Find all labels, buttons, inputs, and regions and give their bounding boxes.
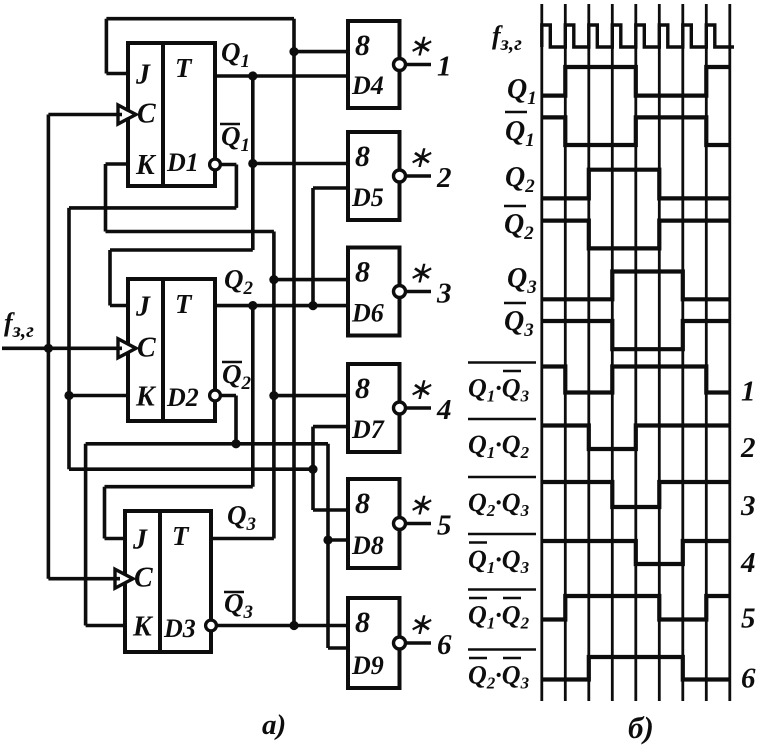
svg-text:D5: D5	[351, 183, 384, 212]
wire net Q-bar-3 long vertical	[292, 19, 296, 626]
wire net Q-bar-1 right vertical	[311, 427, 315, 510]
inverter circle on D7 output	[394, 402, 406, 414]
svg-text:T: T	[175, 53, 193, 83]
inverter circle Q-bar-2 output of D2	[210, 390, 221, 401]
junction Q1 / D5 branch	[248, 159, 257, 168]
clock input triangle D2 pin C	[118, 339, 136, 358]
wire net Q-bar-3 top feedback to J of D1	[106, 17, 294, 21]
svg-text:∗: ∗	[407, 257, 432, 290]
wire net Q3 branch to D6 input 1	[274, 278, 348, 282]
svg-text:1: 1	[741, 376, 756, 408]
svg-text:∗: ∗	[407, 141, 432, 174]
wire D9 output stub	[406, 641, 432, 645]
svg-text:D4: D4	[351, 71, 384, 100]
svg-text:T: T	[172, 521, 190, 551]
JK flip-flop D1 (T-type box)	[128, 43, 215, 186]
svg-text:5: 5	[437, 510, 452, 542]
wire clock bus vertical	[47, 115, 51, 579]
svg-text:4: 4	[740, 547, 756, 579]
label waveform Q-bar-3	[504, 303, 534, 341]
wire net Q3 vertical	[272, 232, 276, 539]
waveform Q2	[542, 170, 730, 199]
svg-text:Q2: Q2	[504, 209, 534, 244]
svg-text:Q1: Q1	[507, 74, 537, 109]
svg-text:K: K	[132, 612, 154, 643]
waveform Q-bar-3	[542, 321, 730, 349]
svg-text:Q2: Q2	[505, 162, 535, 197]
inverter circle on D8 output	[394, 518, 406, 530]
inverter circle on D9 output	[394, 637, 406, 649]
wire net Q2 J3 routing	[105, 487, 253, 539]
wire clock to C of D1	[48, 113, 122, 117]
wire Q-bar-3 output row to D9 input 1	[217, 624, 348, 628]
NAND gate D9 (&amp; symbol)	[348, 598, 400, 688]
wire net Q-bar-3 branch to D4 input 1	[294, 50, 348, 54]
label product Q-bar-2 and Q-bar-3	[468, 650, 536, 693]
svg-text:6: 6	[437, 629, 452, 661]
wire clock to C of D3	[48, 577, 120, 581]
wire Q1 output row to D4 input 2	[215, 74, 348, 78]
junction Q-bar-3 / D4 branch	[289, 47, 298, 56]
JK flip-flop D2 (T-type box)	[128, 279, 215, 421]
NAND gate D5 (&amp; symbol)	[348, 132, 400, 220]
wire net Q-bar-1 to K of D2	[69, 394, 128, 398]
inverter circle Q-bar-3 output of D3	[206, 620, 217, 631]
svg-text:8: 8	[355, 29, 370, 62]
svg-text:J: J	[135, 60, 151, 91]
waveform 4 NAND(Q-bar-1,Q3)	[542, 541, 730, 564]
wire Q3 output row	[211, 537, 274, 541]
waveform Q3	[542, 272, 730, 300]
svg-text:Q2: Q2	[222, 359, 252, 394]
wire net Q3 to K of D1	[106, 164, 274, 232]
waveform 3 NAND(Q2,Q3)	[542, 482, 730, 507]
junction Q2 / D5 vertical	[308, 301, 317, 310]
wire D5 output stub	[406, 174, 432, 178]
label product Q-bar-1 and Q-bar-2	[468, 590, 536, 633]
svg-text:∗: ∗	[407, 30, 432, 63]
wire net Q-bar-2 right vertical	[326, 444, 330, 648]
junction Q-bar-2 / D8 branch	[323, 535, 332, 544]
svg-text:Q2·Q3: Q2·Q3	[468, 661, 530, 693]
label waveform Q-bar-1	[505, 112, 535, 151]
waveform Q-bar-1	[542, 117, 730, 145]
junction Q2 output / J3 vertical	[248, 301, 257, 310]
svg-text:8: 8	[355, 606, 370, 639]
label node Q-bar-1	[220, 121, 250, 156]
NAND gate D7 (&amp; symbol)	[348, 364, 400, 452]
svg-text:K: K	[135, 150, 157, 181]
inverter circle on D4 output	[394, 59, 406, 71]
svg-text:Q2: Q2	[224, 264, 254, 299]
svg-text:4: 4	[436, 394, 452, 426]
wire net Q-bar-1 lower row	[69, 467, 313, 471]
junction Q-bar-1 row / right vertical	[308, 465, 317, 474]
wire Q-bar-1 output stub	[221, 165, 236, 208]
wire net Q-bar-2 to D9 input 2	[328, 646, 348, 650]
wire clock f input to C of D2	[2, 346, 122, 350]
svg-text:Q1·Q2: Q1·Q2	[468, 601, 530, 633]
svg-text:∗: ∗	[407, 489, 432, 522]
svg-text:Q1: Q1	[221, 121, 250, 156]
wire net Q-bar-1 to D8 input 1	[313, 508, 348, 512]
wire net Q-bar-2 row	[86, 442, 328, 446]
svg-text:5: 5	[741, 603, 756, 635]
junction Q-bar-1 / K2 branch	[64, 391, 73, 400]
wire D6 output stub	[406, 290, 432, 294]
svg-text:8: 8	[355, 487, 370, 520]
svg-text:D3: D3	[163, 614, 196, 643]
label product Q1 and Q2	[468, 419, 536, 462]
svg-text:J: J	[132, 525, 148, 556]
wire net Q2 to D5 input 2	[313, 186, 348, 190]
label node Q-bar-3	[224, 588, 253, 623]
wire net Q-bar-1 left vertical	[67, 208, 71, 469]
svg-text:1: 1	[437, 51, 452, 83]
label product Q-bar-1 and Q3	[468, 534, 536, 577]
svg-text:C: C	[134, 563, 153, 594]
wire net Q1 to J of D2	[110, 250, 253, 306]
wire net Q2 vertical to D5	[311, 188, 315, 306]
waveform 1 NAND(Q1,Q-bar-3)	[542, 367, 730, 393]
wire net Q2 vertical to J of D3	[251, 306, 255, 487]
svg-text:8: 8	[355, 256, 370, 289]
label node Q-bar-2	[222, 359, 252, 394]
svg-text:2: 2	[740, 432, 756, 464]
svg-text:∗: ∗	[407, 608, 432, 641]
svg-text:∗: ∗	[407, 373, 432, 406]
wire net Q1 branch to D5 input 1	[253, 162, 348, 166]
svg-text:8: 8	[355, 140, 370, 173]
svg-text:D8: D8	[351, 531, 384, 560]
label waveform Q-bar-2	[504, 206, 534, 244]
wire net Q-bar-2 left vertical to K of D3	[86, 444, 125, 626]
wire D7 output stub	[406, 406, 432, 410]
svg-text:D2: D2	[166, 383, 199, 412]
waveform Q-bar-2	[542, 221, 730, 249]
wire D8 output stub	[406, 522, 432, 526]
svg-text:C: C	[137, 99, 156, 130]
svg-text:fз,г: fз,г	[492, 21, 522, 55]
wire net Q-bar-2 to D8 input 2	[328, 538, 348, 542]
wire net Q-bar-3 leg to J1	[106, 19, 128, 74]
svg-text:Q1: Q1	[505, 116, 535, 151]
svg-text:б): б)	[628, 710, 654, 745]
svg-text:Q1: Q1	[221, 37, 250, 72]
NAND gate D4 (&amp; symbol)	[348, 21, 400, 108]
svg-text:Q1·Q2: Q1·Q2	[468, 430, 530, 462]
wire net Q-bar-1 to D7 input 2	[313, 425, 348, 429]
inverter circle on D5 output	[394, 170, 406, 182]
svg-text:8: 8	[355, 372, 370, 405]
timing grid clock-edge lines	[542, 4, 730, 701]
svg-text:Q3: Q3	[504, 306, 534, 341]
svg-text:C: C	[137, 332, 156, 363]
inverter circle Q-bar-1 output of D1	[210, 159, 221, 170]
svg-text:а): а)	[262, 709, 286, 741]
clock input triangle D1 pin C	[118, 105, 136, 124]
waveform Q1	[542, 67, 730, 96]
svg-text:2: 2	[436, 162, 452, 194]
wire D4 output stub	[406, 63, 432, 67]
NAND gate D8 (&amp; symbol)	[348, 479, 400, 568]
junction Q-bar-2 stub / row	[231, 439, 240, 448]
svg-text:K: K	[135, 382, 157, 413]
label product Q2 and Q3	[468, 477, 536, 520]
NAND gate D6 (&amp; symbol)	[348, 248, 400, 336]
svg-text:D6: D6	[351, 299, 384, 328]
wire Q-bar-2 output stub	[221, 396, 236, 444]
svg-text:fз,г: fз,г	[4, 308, 34, 342]
svg-text:J: J	[135, 292, 151, 323]
svg-text:Q1·Q3: Q1·Q3	[468, 545, 530, 577]
svg-text:Q2·Q3: Q2·Q3	[468, 488, 530, 520]
svg-text:D1: D1	[166, 148, 199, 177]
svg-text:Q3: Q3	[227, 500, 256, 535]
junction Q1 output / vertical	[248, 71, 257, 80]
wire net Q3 branch to D7 input 1	[274, 394, 348, 398]
JK flip-flop D3 (T-type box)	[125, 511, 211, 652]
svg-text:3: 3	[436, 278, 452, 310]
inverter circle on D6 output	[394, 286, 406, 298]
waveform 6 NAND(Q-bar-2,Q-bar-3)	[542, 657, 730, 680]
junction Q-bar-3 vertical / output row	[289, 621, 298, 630]
wire net Q-bar-1 upper feedback	[69, 206, 236, 210]
svg-text:D9: D9	[351, 651, 384, 680]
waveform 5 NAND(Q-bar-1,Q-bar-2)	[542, 596, 730, 620]
waveform 2 NAND(Q1,Q2)	[542, 426, 730, 450]
waveform f clock pulses	[542, 25, 734, 47]
svg-text:6: 6	[741, 663, 756, 695]
wire Q2 output row to D6 input 2	[215, 304, 348, 308]
svg-text:D7: D7	[351, 415, 385, 444]
svg-text:T: T	[175, 289, 193, 319]
clock input triangle D3 pin C	[115, 569, 133, 588]
svg-text:3: 3	[740, 490, 756, 522]
wire net Q1 vertical	[251, 76, 255, 250]
label product Q1 and Q-bar-3	[468, 363, 536, 406]
junction clock bus / f input	[44, 344, 53, 353]
svg-text:Q3: Q3	[507, 263, 537, 298]
junction Q3 / D7 branch	[269, 391, 278, 400]
junction Q3 / D6 branch	[269, 275, 278, 284]
svg-text:Q1·Q3: Q1·Q3	[468, 374, 530, 406]
